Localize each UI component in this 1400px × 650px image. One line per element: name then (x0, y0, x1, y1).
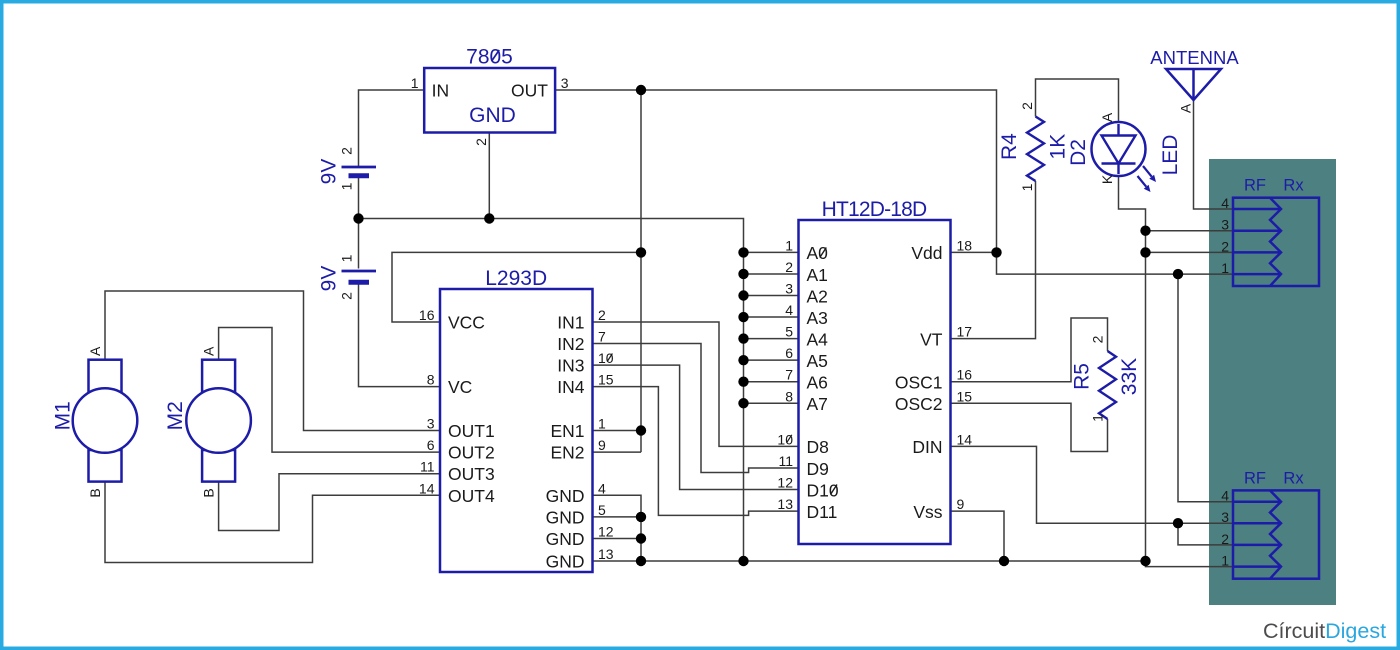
junction A1 / bus (738, 269, 748, 279)
wire resistor R5 to OSC2 pin15 (951, 403, 1108, 451)
svg-text:Vss: Vss (913, 502, 942, 522)
resistor R4 1K (998, 102, 1069, 192)
wire to RF Rx 1 pin2 (1146, 251, 1234, 253)
junction A-bus / bottom ground rail (738, 556, 748, 566)
svg-text:8: 8 (785, 388, 793, 404)
wire 7805 GND pin2 down to ground rail (488, 133, 490, 219)
wire GND pin4 and ground bus (593, 495, 642, 561)
svg-text:D2: D2 (1067, 139, 1090, 166)
slashed zero in pin number 10 of HT12D (787, 435, 792, 443)
svg-text:1: 1 (1221, 260, 1229, 276)
wire EN1 pin1 stub (593, 430, 642, 432)
svg-text:A1: A1 (807, 265, 828, 285)
junction RF Rx 1 pin3 (1140, 226, 1150, 236)
svg-text:5: 5 (598, 502, 606, 518)
svg-text:11: 11 (420, 459, 435, 475)
junction A6 / bus (738, 377, 748, 387)
svg-text:OUT3: OUT3 (448, 464, 495, 484)
svg-text:2: 2 (1089, 335, 1105, 343)
wire branch to RF Rx 2 pin2 (1178, 523, 1233, 545)
svg-text:B: B (201, 488, 217, 497)
svg-text:9: 9 (598, 437, 606, 453)
motor driver IC L293D (419, 267, 614, 572)
svg-text:1: 1 (339, 182, 355, 190)
svg-text:3: 3 (1221, 217, 1229, 233)
svg-text:3: 3 (427, 416, 435, 432)
svg-text:Vdd: Vdd (911, 243, 942, 263)
svg-text:9: 9 (957, 496, 965, 512)
svg-text:VT: VT (920, 329, 943, 349)
svg-text:13: 13 (777, 496, 793, 512)
svg-text:1: 1 (411, 75, 419, 91)
junction LED return / bottom ground rail (1140, 556, 1150, 566)
svg-text:ANTENNA: ANTENNA (1150, 47, 1239, 68)
junction A2 / bus (738, 290, 748, 300)
battery BT2 9V (317, 254, 376, 300)
svg-text:R5: R5 (1070, 363, 1093, 390)
wire Vss pin9 to ground rail (951, 511, 1005, 561)
svg-text:15: 15 (598, 372, 614, 388)
svg-text:OSC1: OSC1 (895, 373, 943, 393)
junction Vdd branch (1173, 269, 1183, 279)
LED D2 (1067, 112, 1182, 192)
wire R4 top to LED D2 anode (1036, 79, 1119, 123)
svg-text:5: 5 (785, 324, 793, 340)
svg-text:15: 15 (957, 388, 973, 404)
svg-text:2: 2 (1019, 102, 1035, 110)
svg-text:10: 10 (598, 350, 614, 366)
wire A2 stub (744, 295, 799, 297)
svg-text:14: 14 (957, 431, 973, 447)
svg-text:1: 1 (1221, 553, 1229, 569)
svg-text:EN1: EN1 (550, 421, 584, 441)
svg-text:D8: D8 (807, 437, 829, 457)
junction A3 / bus (738, 312, 748, 322)
junction 7805 GND / ground rail (484, 213, 494, 223)
svg-text:2: 2 (339, 147, 355, 155)
svg-text:3: 3 (561, 75, 569, 91)
svg-text:7: 7 (598, 329, 606, 345)
junction A7 / bus (738, 398, 748, 408)
wire A3 stub (744, 316, 799, 318)
wire OUT3 pin11 to motor M2 B (219, 474, 440, 531)
svg-text:OUT: OUT (511, 81, 548, 101)
svg-text:2: 2 (785, 259, 793, 275)
svg-text:VCC: VCC (448, 313, 485, 333)
svg-text:GND: GND (546, 552, 585, 572)
svg-text:18: 18 (957, 237, 973, 253)
wire OUT4 pin14 to motor M1 B (105, 482, 440, 563)
svg-text:HT12D-18D: HT12D-18D (822, 198, 927, 221)
svg-text:VC: VC (448, 377, 472, 397)
svg-text:16: 16 (419, 307, 435, 323)
wire 7805 OUT pin3 +5V rail to Vdd riser (555, 90, 996, 252)
junction A4 / bus (738, 333, 748, 343)
svg-text:IN2: IN2 (557, 334, 584, 354)
svg-text:14: 14 (419, 480, 435, 496)
svg-text:RF: RF (1244, 177, 1266, 195)
ground rail from BT1 to A-bus (359, 219, 744, 253)
wire GND pin12 stub (593, 538, 642, 540)
voltage regulator 7805 (411, 46, 569, 146)
junction A5 / bus (738, 355, 748, 365)
svg-text:Rx: Rx (1283, 469, 1304, 487)
CircuitDigest logo (1263, 619, 1386, 643)
svg-text:2: 2 (1221, 238, 1229, 254)
junction GND pin12 (636, 533, 646, 543)
svg-text:1: 1 (785, 237, 793, 253)
wire Vdd to RF Rx 1 pin1 (997, 252, 1234, 274)
slashed zero in D10 (831, 485, 838, 495)
antenna (1150, 47, 1239, 113)
svg-text:1: 1 (339, 254, 355, 262)
svg-text:4: 4 (598, 480, 606, 496)
svg-text:10: 10 (777, 431, 793, 447)
junction Vss / bottom ground rail (999, 556, 1009, 566)
junction EN1 / +5V (636, 425, 646, 435)
svg-text:IN3: IN3 (557, 356, 584, 376)
svg-text:A7: A7 (807, 394, 828, 414)
svg-text:EN2: EN2 (550, 443, 584, 463)
wire battery BT2 - to VC pin8 (359, 285, 441, 387)
svg-text:9V: 9V (317, 159, 340, 185)
wire A5 stub (744, 359, 799, 361)
RF receiver module RF Rx 1 (1221, 177, 1319, 286)
wire VT pin17 to resistor R4 (951, 181, 1036, 339)
bottom ground rail from GND pin13 (593, 560, 1146, 562)
svg-text:GND: GND (546, 529, 585, 549)
svg-text:GND: GND (469, 104, 516, 127)
svg-text:A: A (1099, 112, 1115, 122)
svg-text:8: 8 (427, 372, 435, 388)
svg-text:13: 13 (598, 546, 614, 562)
svg-text:OUT1: OUT1 (448, 421, 495, 441)
svg-text:6: 6 (427, 437, 435, 453)
svg-text:M2: M2 (164, 401, 187, 430)
junction DIN branch (1173, 518, 1183, 528)
svg-text:2: 2 (598, 307, 606, 323)
svg-text:17: 17 (957, 324, 973, 340)
svg-text:LED: LED (1159, 135, 1182, 176)
junction +5V rail (636, 85, 646, 95)
wire Vdd pin18 stub (951, 251, 997, 253)
svg-text:RF: RF (1244, 469, 1266, 487)
slashed zero in A0 (820, 248, 827, 258)
wire to RF Rx 1 pin3 (1146, 230, 1234, 232)
svg-text:2: 2 (339, 292, 355, 300)
svg-text:A4: A4 (807, 329, 829, 349)
wire IN1 pin2 to D8 pin10 (593, 322, 799, 446)
RF receiver module RF Rx 2 (1221, 469, 1319, 578)
svg-text:12: 12 (598, 524, 614, 540)
svg-text:11: 11 (778, 453, 793, 469)
wire IN2 pin7 to D9 pin11 (593, 344, 799, 473)
wire ground rail to RF Rx 2 pin1 (1146, 561, 1234, 567)
svg-text:2: 2 (473, 138, 489, 146)
svg-text:A: A (201, 346, 217, 356)
svg-text:GND: GND (546, 486, 585, 506)
svg-text:A: A (1178, 103, 1194, 113)
svg-text:A6: A6 (807, 373, 828, 393)
junction Vdd pin18 (991, 247, 1001, 257)
wire LED D2 cathode to ground (1119, 176, 1146, 562)
wire motor M2 A to OUT2 pin6 (219, 328, 440, 453)
svg-text:D9: D9 (807, 459, 829, 479)
svg-text:3: 3 (1221, 509, 1229, 525)
wire IN3 pin10 to D10 pin12 (593, 365, 799, 489)
wire 7805 IN pin1 to battery BT1 + (359, 90, 425, 166)
wire Vdd branch to RF Rx 2 pin4 (1178, 274, 1233, 502)
decoder IC HT12D-18D (777, 198, 972, 544)
svg-text:A5: A5 (807, 351, 828, 371)
resistor R5 33K (1070, 335, 1141, 422)
svg-text:M1: M1 (51, 401, 74, 430)
svg-text:33K: 33K (1118, 358, 1141, 395)
svg-text:IN: IN (432, 81, 450, 101)
svg-text:B: B (87, 488, 103, 497)
battery BT1 9V (317, 147, 376, 191)
svg-text:OSC2: OSC2 (895, 394, 943, 414)
wire antenna to RF Rx 1 pin4 (1194, 100, 1234, 209)
svg-text:9V: 9V (317, 266, 340, 292)
wire IN4 pin15 to D11 pin13 (593, 387, 799, 516)
svg-text:1: 1 (1019, 183, 1035, 191)
RF receiver module panel (teal background) (1209, 159, 1336, 605)
wire OSC1 pin16 to resistor R5 (951, 318, 1108, 382)
svg-text:GND: GND (546, 507, 585, 527)
svg-text:D11: D11 (807, 502, 838, 522)
wire A0 stub (744, 251, 799, 253)
svg-text:OUT4: OUT4 (448, 486, 495, 506)
wire ground rail to battery BT2 + (358, 219, 360, 269)
svg-text:1: 1 (598, 416, 606, 432)
svg-text:1: 1 (1089, 414, 1105, 422)
svg-text:A3: A3 (807, 308, 828, 328)
svg-text:K: K (1099, 174, 1115, 184)
wire EN2 pin9 stub (593, 451, 642, 453)
junction battery / ground rail (353, 213, 363, 223)
svg-text:DIN: DIN (912, 437, 942, 457)
wire A4 stub (744, 338, 799, 340)
+5V vertical from rail to EN2 (640, 90, 642, 452)
junction GND pin5 (636, 512, 646, 522)
wire DIN pin14 to RF Rx 2 pin3 (951, 446, 1234, 523)
svg-text:IN1: IN1 (557, 313, 584, 333)
junction RF Rx 1 pin2 (1140, 247, 1150, 257)
wire battery BT1 - to ground rail (358, 177, 360, 219)
svg-text:2: 2 (1221, 531, 1229, 547)
svg-text:4: 4 (785, 302, 793, 318)
svg-text:Rx: Rx (1283, 177, 1304, 195)
svg-text:CírcuitDigest: CírcuitDigest (1263, 619, 1386, 643)
svg-text:A: A (87, 346, 103, 356)
svg-text:12: 12 (777, 475, 793, 491)
wire A7 stub (744, 402, 799, 404)
motor M1 (51, 346, 137, 498)
svg-text:4: 4 (1221, 195, 1229, 211)
wire motor M1 A to OUT1 pin3 (105, 291, 440, 431)
svg-text:R4: R4 (998, 133, 1021, 160)
svg-text:3: 3 (785, 281, 793, 297)
slashed zero in 7805 title (492, 50, 500, 61)
junction GND pin13 (636, 556, 646, 566)
svg-text:A0: A0 (807, 243, 829, 263)
svg-text:4: 4 (1221, 488, 1229, 504)
svg-text:IN4: IN4 (557, 377, 585, 397)
svg-text:L293D: L293D (485, 267, 547, 290)
address bus A0-A7 to ground (743, 252, 745, 561)
wire A6 stub (744, 381, 799, 383)
wire VCC pin16 to +5V line (392, 252, 641, 322)
motor M2 (164, 346, 251, 498)
slashed zero in pin number 10 of L293D (607, 354, 612, 362)
junction A0 / bus (738, 247, 748, 257)
svg-text:OUT2: OUT2 (448, 443, 495, 463)
svg-text:6: 6 (785, 345, 793, 361)
svg-text:A2: A2 (807, 286, 828, 306)
wire A1 stub (744, 273, 799, 275)
svg-text:7805: 7805 (466, 46, 513, 69)
junction +5V / VCC wire (636, 247, 646, 257)
wire GND pin5 stub (593, 516, 642, 518)
svg-text:16: 16 (957, 367, 973, 383)
svg-text:7: 7 (785, 367, 793, 383)
